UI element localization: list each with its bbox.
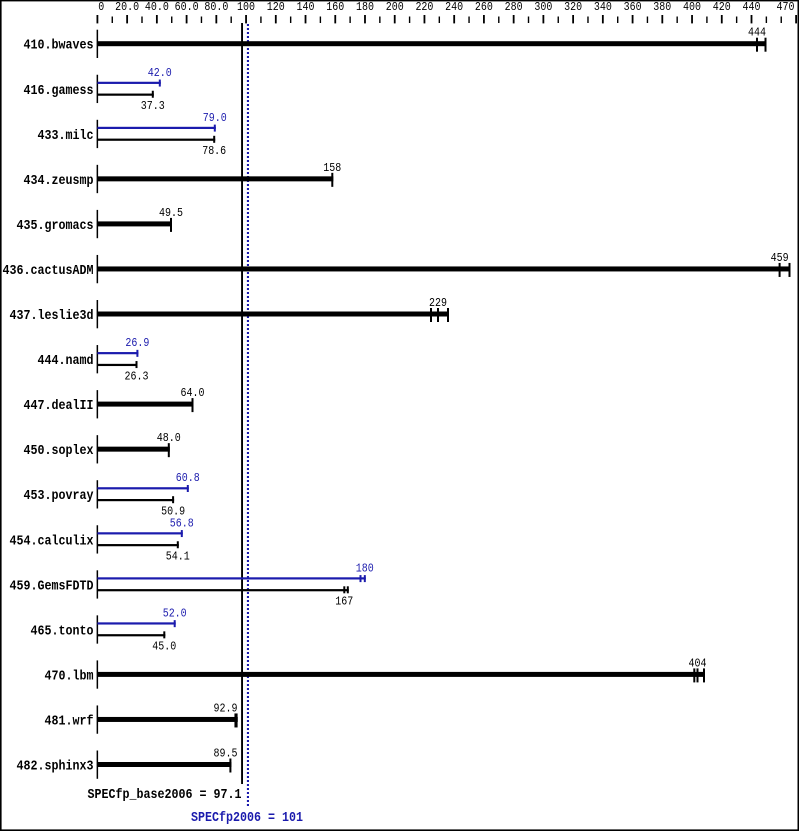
svg-text:416.gamess: 416.gamess [24,83,94,99]
470.lbm run tick marks [693,668,695,682]
svg-text:78.6: 78.6 [202,145,226,158]
svg-text:404: 404 [689,657,707,670]
459.GemsFDTD base bar (value 167) [97,589,348,591]
svg-text:49.5: 49.5 [159,207,183,220]
437.leslie3d base bar (value 229) [97,312,449,317]
482.sphinx3 run tick marks [229,759,231,773]
svg-text:220: 220 [415,1,433,14]
border left [0,0,2,831]
481.wrf run tick marks [234,713,236,727]
436.cactusADM run tick marks [779,263,781,277]
svg-text:92.9: 92.9 [214,702,238,715]
453.povray base run ticks [172,496,174,503]
svg-text:433.milc: 433.milc [38,128,94,144]
svg-text:459.GemsFDTD: 459.GemsFDTD [10,578,94,594]
svg-text:48.0: 48.0 [157,432,181,445]
svg-text:200: 200 [386,1,404,14]
svg-text:360: 360 [624,1,642,14]
svg-text:26.3: 26.3 [125,370,149,383]
459.GemsFDTD peak run ticks [360,575,362,582]
svg-text:54.1: 54.1 [166,550,190,563]
svg-text:436.cactusADM: 436.cactusADM [3,263,94,279]
436.cactusADM base bar (value 459) [97,266,790,271]
465.tonto peak bar (value 52.0) [97,622,175,624]
410.bwaves run tick marks [756,38,758,52]
svg-text:437.leslie3d: 437.leslie3d [10,308,94,324]
454.calculix peak bar (value 56.8) [97,532,182,534]
svg-text:140: 140 [297,1,315,14]
svg-text:300: 300 [534,1,552,14]
row 454.calculix: axis start line [97,525,99,553]
433.milc base bar (value 78.6) [97,139,215,141]
row 444.namd: axis start line [97,345,99,373]
row 465.tonto: axis start line [97,615,99,643]
row 435.gromacs: axis start line [97,210,99,238]
svg-text:410.bwaves: 410.bwaves [24,38,94,54]
row 482.sphinx3: axis start line [97,751,99,779]
svg-text:453.povray: 453.povray [24,488,94,504]
svg-text:40.0: 40.0 [145,1,169,14]
svg-text:64.0: 64.0 [181,387,205,400]
svg-text:160: 160 [326,1,344,14]
svg-text:470: 470 [777,1,795,14]
svg-text:434.zeusmp: 434.zeusmp [24,173,94,189]
svg-text:444.namd: 444.namd [38,353,94,369]
453.povray peak bar (value 60.8) [97,487,188,489]
svg-text:42.0: 42.0 [148,67,172,80]
410.bwaves base bar (value 444) [97,41,766,46]
svg-text:79.0: 79.0 [203,112,227,125]
row 470.lbm: axis start line [97,660,99,688]
481.wrf base bar (value 92.9) [97,717,237,722]
svg-text:180: 180 [356,1,374,14]
svg-text:89.5: 89.5 [214,748,238,761]
svg-text:80.0: 80.0 [204,1,228,14]
svg-text:320: 320 [564,1,582,14]
svg-text:56.8: 56.8 [170,517,194,530]
434.zeusmp base bar (value 158) [97,176,333,181]
row 481.wrf: axis start line [97,705,99,733]
row 447.dealII: axis start line [97,390,99,418]
svg-text:340: 340 [594,1,612,14]
433.milc peak run ticks [214,125,216,132]
svg-text:280: 280 [505,1,523,14]
row 437.leslie3d: axis start line [97,300,99,328]
svg-text:180: 180 [356,562,374,575]
border top [0,0,799,1]
svg-text:37.3: 37.3 [141,100,165,113]
svg-text:167: 167 [335,596,353,609]
svg-text:400: 400 [683,1,701,14]
437.leslie3d run tick marks [430,308,432,322]
svg-text:SPECfp2006 = 101: SPECfp2006 = 101 [191,810,303,826]
465.tonto base run ticks [163,631,165,638]
svg-text:435.gromacs: 435.gromacs [17,218,94,234]
465.tonto base bar (value 45.0) [97,634,165,636]
svg-text:52.0: 52.0 [163,607,187,620]
450.soplex run tick marks [168,443,170,457]
svg-text:459: 459 [771,252,789,265]
416.gamess base bar (value 37.3) [97,94,153,96]
433.milc base run ticks [213,136,215,143]
row 459.GemsFDTD: axis start line [97,570,99,598]
svg-text:229: 229 [429,297,447,310]
row 416.gamess: axis start line [97,75,99,103]
447.dealII base bar (value 64.0) [97,402,193,407]
svg-text:100: 100 [237,1,255,14]
border bottom [0,829,799,831]
svg-text:158: 158 [323,162,341,175]
svg-text:440: 440 [743,1,761,14]
465.tonto peak run ticks [174,620,176,627]
svg-text:450.soplex: 450.soplex [24,443,94,459]
row 436.cactusADM: axis start line [97,255,99,283]
svg-text:SPECfp_base2006 = 97.1: SPECfp_base2006 = 97.1 [88,787,242,803]
433.milc peak bar (value 79.0) [97,127,215,129]
svg-text:60.8: 60.8 [176,472,200,485]
svg-text:444: 444 [748,27,766,40]
444.namd peak bar (value 26.9) [97,352,138,354]
svg-text:481.wrf: 481.wrf [45,713,94,729]
459.GemsFDTD peak bar (value 180) [97,577,365,579]
svg-text:45.0: 45.0 [152,641,176,654]
SPECfp_base2006 median line (97.1) [241,23,243,784]
447.dealII run tick marks [192,398,194,412]
svg-text:470.lbm: 470.lbm [45,668,94,684]
row 434.zeusmp: axis start line [97,165,99,193]
SPECfp2006 median line (101), dotted blue [247,24,249,808]
svg-text:60.0: 60.0 [175,1,199,14]
416.gamess peak run ticks [159,80,161,87]
444.namd base run ticks [136,361,138,368]
454.calculix base run ticks [177,541,179,548]
416.gamess base run ticks [152,91,154,98]
450.soplex base bar (value 48.0) [97,447,169,452]
454.calculix base bar (value 54.1) [97,544,178,546]
svg-text:260: 260 [475,1,493,14]
svg-text:20.0: 20.0 [115,1,139,14]
svg-text:26.9: 26.9 [125,337,149,350]
482.sphinx3 base bar (value 89.5) [97,762,231,767]
row 433.milc: axis start line [97,120,99,148]
svg-text:0: 0 [98,1,104,14]
svg-text:454.calculix: 454.calculix [10,533,94,549]
svg-text:447.dealII: 447.dealII [24,398,94,414]
svg-text:240: 240 [445,1,463,14]
svg-text:420: 420 [713,1,731,14]
row 450.soplex: axis start line [97,435,99,463]
axis tick marks [97,15,99,23]
row 410.bwaves: axis start line [97,30,99,58]
453.povray peak run ticks [187,485,189,492]
459.GemsFDTD base run ticks [343,586,345,593]
416.gamess peak bar (value 42.0) [97,82,160,84]
svg-text:120: 120 [267,1,285,14]
434.zeusmp run tick marks [331,173,333,187]
border right [798,0,799,831]
svg-text:465.tonto: 465.tonto [31,623,94,639]
470.lbm base bar (value 404) [97,672,705,677]
435.gromacs run tick marks [170,218,172,232]
454.calculix peak run ticks [181,530,183,537]
453.povray base bar (value 50.9) [97,499,174,501]
435.gromacs base bar (value 49.5) [97,221,172,226]
svg-text:482.sphinx3: 482.sphinx3 [17,759,94,775]
444.namd peak run ticks [136,350,138,357]
row 453.povray: axis start line [97,480,99,508]
svg-text:380: 380 [653,1,671,14]
444.namd base bar (value 26.3) [97,364,137,366]
